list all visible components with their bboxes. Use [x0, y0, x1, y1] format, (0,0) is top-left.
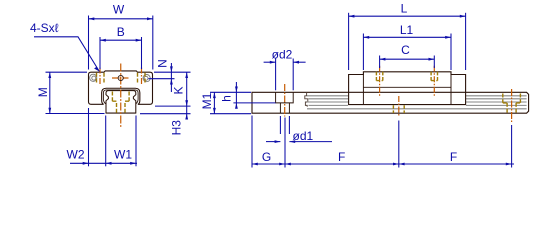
- rail counterbore: [276, 92, 294, 103]
- grease hole circle: [118, 75, 123, 80]
- dimension N: [149, 63, 191, 92]
- rail hole3 hidden hole: [507, 103, 516, 113]
- thread dashed left: [97, 73, 105, 83]
- dimension G F F: [252, 116, 514, 168]
- svg-text:F: F: [338, 150, 345, 164]
- rail hole2 centerline: [398, 96, 400, 117]
- screw centerline right: [141, 68, 143, 85]
- dimension C: [380, 56, 435, 69]
- svg-text:h: h: [220, 95, 234, 102]
- svg-text:G: G: [262, 150, 271, 164]
- block screw hole right centerline: [433, 66, 435, 96]
- dimension od1: [266, 116, 332, 143]
- dimension od2: [264, 59, 306, 91]
- block outline: [89, 71, 153, 104]
- thread dashed right: [138, 73, 146, 83]
- dimension L1: [363, 34, 451, 71]
- dimension H3: [140, 106, 191, 119]
- svg-text:W: W: [113, 3, 125, 17]
- svg-text:4-Sxℓ: 4-Sxℓ: [30, 21, 59, 35]
- svg-text:ød2: ød2: [272, 47, 293, 61]
- dimension M1: [210, 92, 251, 113]
- svg-text:M: M: [36, 87, 50, 97]
- svg-text:F: F: [450, 150, 457, 164]
- dimension M: [46, 72, 105, 113]
- block screw hole right thread: [431, 72, 437, 81]
- section break line: [305, 92, 308, 107]
- svg-text:L1: L1: [400, 23, 414, 37]
- block screw hole left centerline: [379, 66, 381, 96]
- svg-text:W1: W1: [114, 147, 132, 161]
- rail side outline: [252, 92, 529, 113]
- dimension W: [89, 16, 153, 70]
- svg-text:N: N: [155, 59, 169, 68]
- rail groove lines: [307, 96, 527, 109]
- rail hidden hole od1 dashed: [117, 101, 126, 113]
- rail hidden counterbore od2 dashed: [112, 92, 129, 102]
- dimension L: [349, 13, 466, 70]
- label 4-Sxl leader: [34, 37, 99, 72]
- dimension B: [100, 37, 142, 69]
- rail cross-section: [106, 91, 136, 113]
- rail through hole: [280, 103, 289, 113]
- channel inner line: [103, 90, 138, 104]
- dimension K: [185, 72, 188, 119]
- svg-text:K: K: [171, 86, 185, 94]
- rail bottom edge: [106, 112, 136, 114]
- end cap joints: [363, 75, 451, 105]
- svg-text:M1: M1: [200, 92, 214, 109]
- svg-text:H3: H3: [169, 120, 183, 136]
- screw centerline left: [99, 68, 101, 85]
- vertical centerline: [120, 64, 122, 128]
- svg-text:C: C: [401, 43, 410, 57]
- svg-text:B: B: [117, 25, 125, 39]
- svg-text:L: L: [401, 1, 408, 15]
- rail hole3 hidden counterbore: [503, 94, 521, 103]
- rail hole1 centerline: [284, 84, 286, 117]
- dimension h: [233, 82, 275, 109]
- svg-text:ød1: ød1: [293, 129, 314, 143]
- rail hole3 centerline: [511, 89, 513, 124]
- ball bore circle right: [143, 75, 150, 82]
- grease hole horizontal centerline: [112, 77, 130, 79]
- dimension W2 W1: [70, 108, 137, 166]
- body waist line: [363, 86, 451, 88]
- block screw hole left thread: [376, 72, 382, 81]
- svg-text:W2: W2: [67, 147, 85, 161]
- rail hole2 hidden lines: [393, 105, 404, 113]
- block side outline: [349, 72, 466, 105]
- ball bore circle left: [90, 74, 97, 81]
